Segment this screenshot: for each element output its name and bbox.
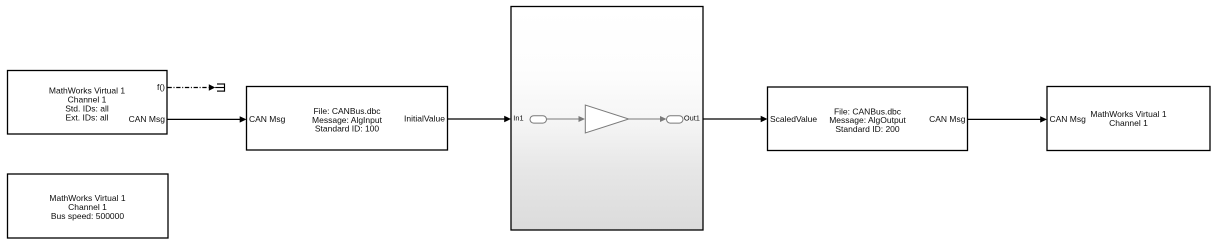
wire event dash-dot from f() port [168, 87, 209, 89]
arrowhead [1040, 116, 1047, 122]
wire CAN Receive to CAN Unpack [168, 118, 241, 120]
block CAN Configuration [8, 174, 169, 238]
svg-text:f(): f() [157, 82, 165, 92]
svg-text:Bus speed: 500000: Bus speed: 500000 [51, 211, 125, 221]
svg-text:InitialValue: InitialValue [404, 114, 445, 124]
arrowhead [240, 116, 247, 122]
svg-text:CAN Msg: CAN Msg [129, 114, 166, 124]
block CAN Pack [768, 87, 968, 151]
arrowhead [761, 116, 768, 122]
wire Subsystem to CAN Pack [703, 118, 761, 120]
svg-text:Out1: Out1 [684, 114, 700, 123]
svg-text:ScaledValue: ScaledValue [770, 114, 817, 124]
subsystem inport oval [530, 116, 547, 123]
wire CAN Pack to CAN Transmit [968, 118, 1041, 120]
svg-text:Ext. IDs: all: Ext. IDs: all [66, 113, 109, 123]
svg-text:CAN Msg: CAN Msg [929, 114, 966, 124]
block Subsystem [511, 7, 703, 231]
svg-text:Standard ID: 200: Standard ID: 200 [835, 124, 900, 134]
unconnected event terminator icon [215, 83, 224, 91]
subsystem wire inport to gain [547, 118, 580, 120]
arrowhead [504, 116, 511, 122]
block CAN Transmit (MathWorks Virtual 1) [1047, 87, 1210, 151]
svg-text:In1: In1 [513, 114, 523, 123]
svg-text:CAN Msg: CAN Msg [249, 114, 286, 124]
arrowhead event wire [209, 84, 215, 90]
subsystem outport oval [667, 116, 684, 123]
block CAN Unpack [247, 87, 448, 151]
svg-text:CAN Msg: CAN Msg [1050, 114, 1087, 124]
svg-text:Channel 1: Channel 1 [1109, 118, 1148, 128]
subsystem gain triangle [585, 105, 628, 133]
svg-text:Standard ID: 100: Standard ID: 100 [315, 124, 380, 134]
wire CAN Unpack to Subsystem [448, 118, 505, 120]
block CAN Receive (MathWorks Virtual 1) [8, 71, 168, 135]
subsystem wire gain to outport [629, 118, 660, 120]
